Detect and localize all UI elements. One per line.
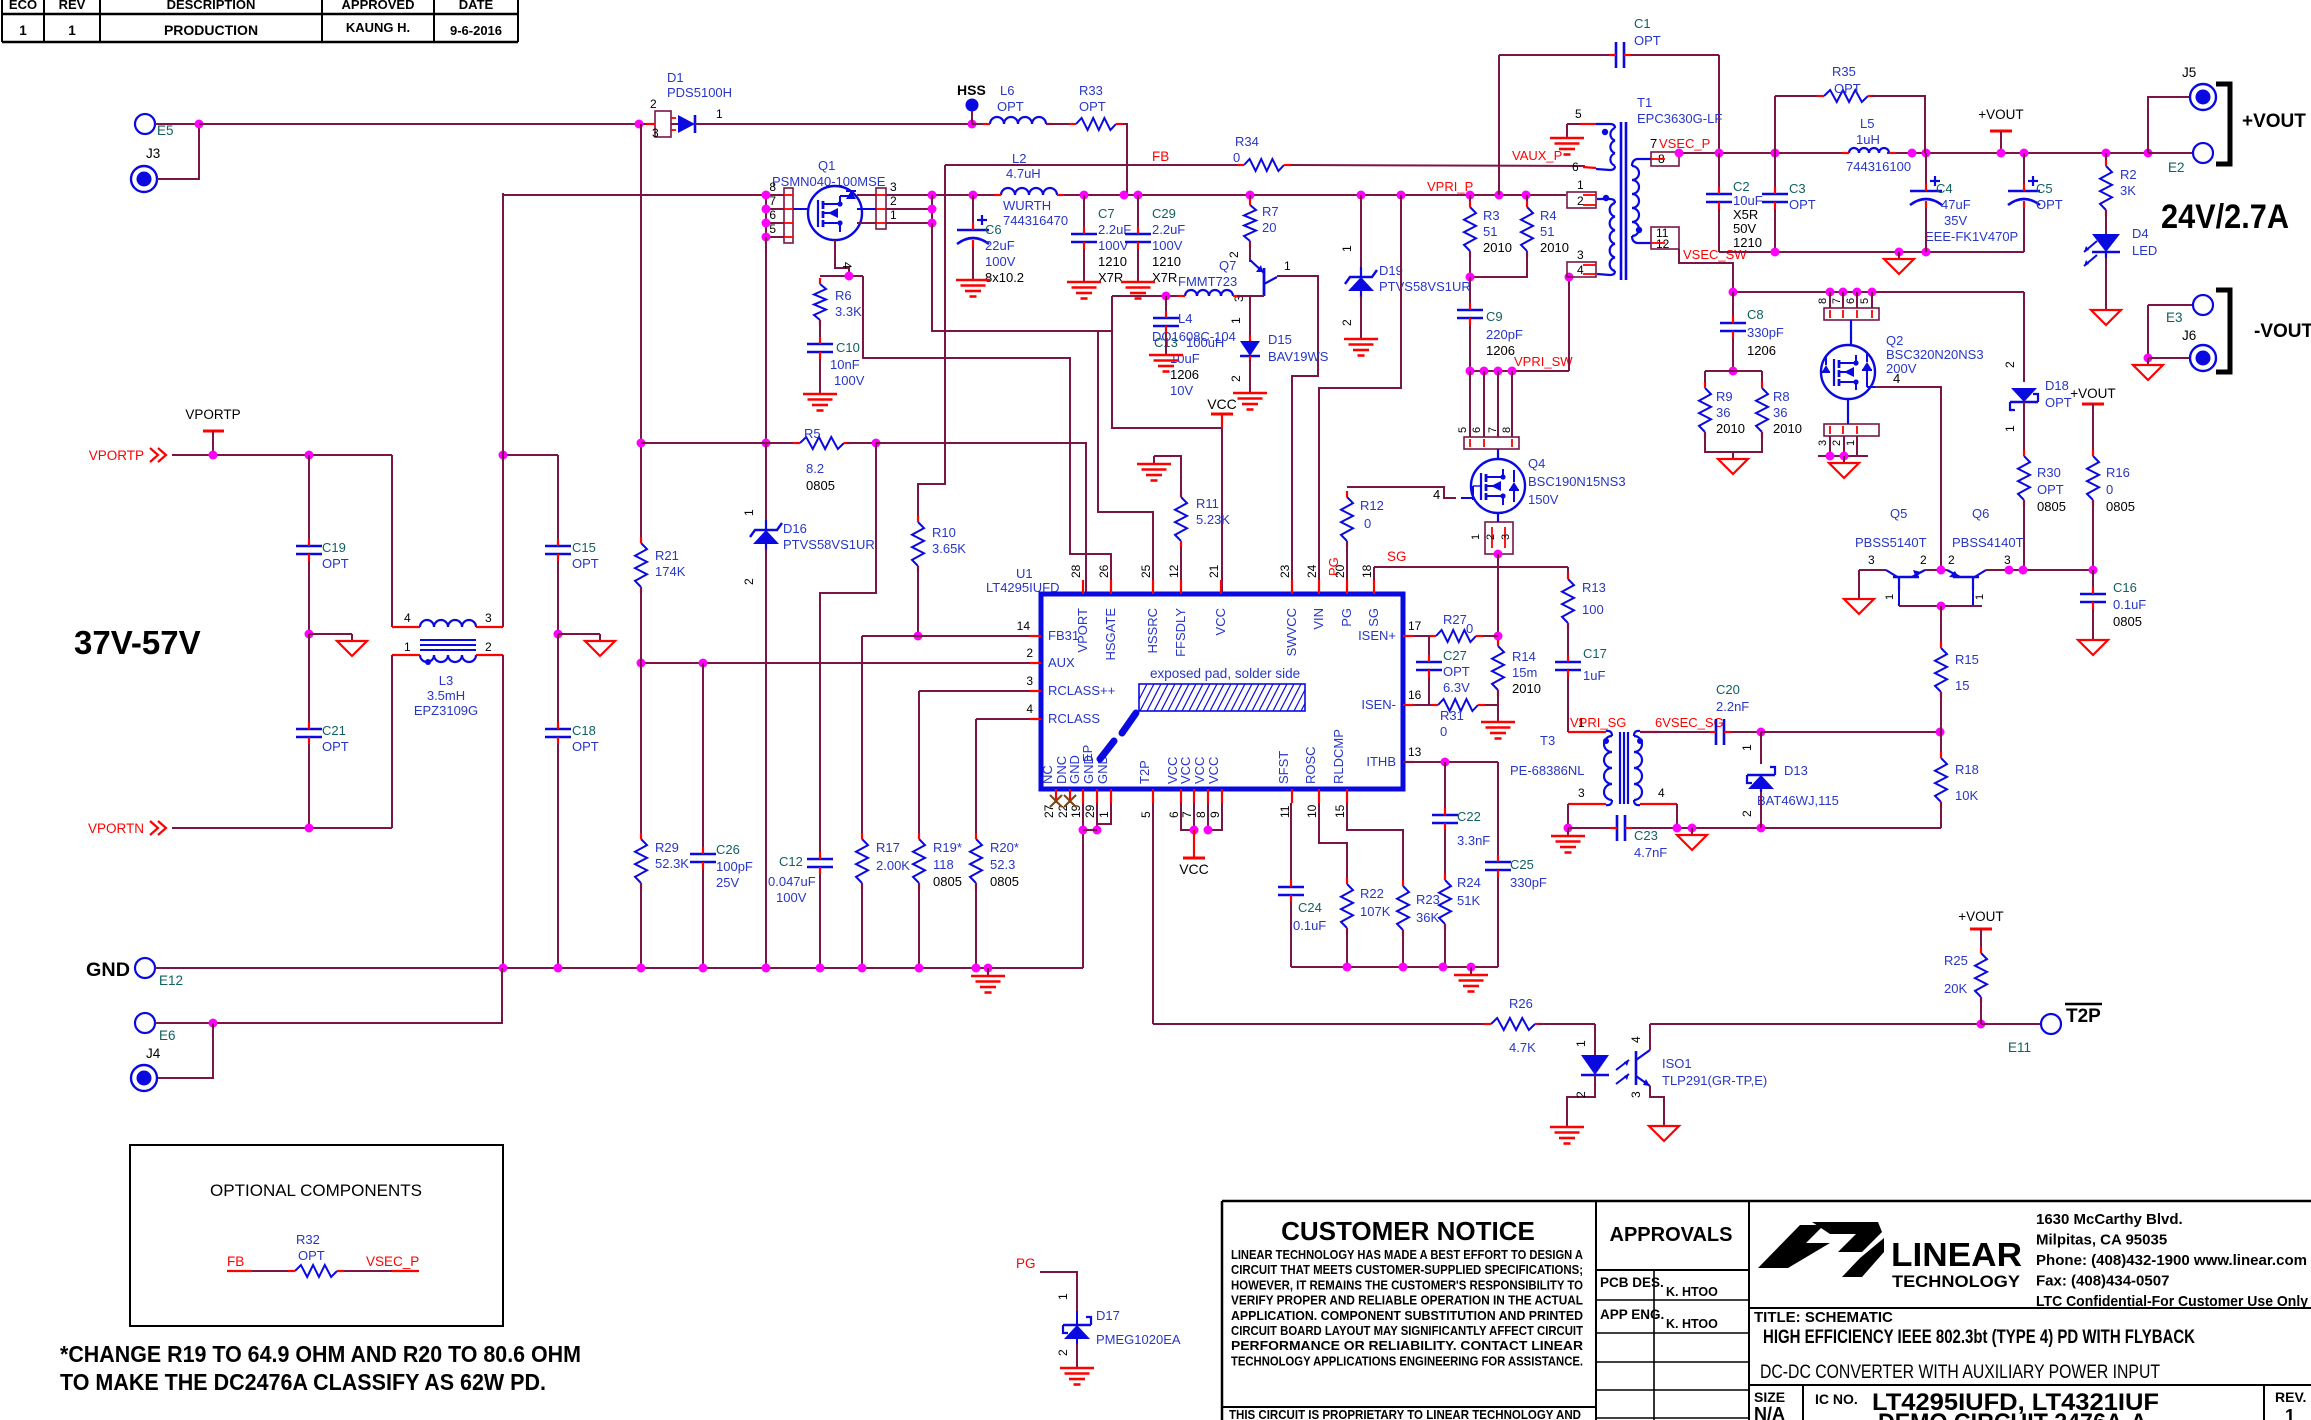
- wire Q4 drain pin3: [1511, 371, 1513, 437]
- power VCC bottom: [1179, 830, 1209, 877]
- wire Q1 drain rail: [886, 194, 1001, 196]
- wire E11 stub: [1981, 1023, 2040, 1025]
- svg-text:VSEC_P: VSEC_P: [1659, 136, 1710, 151]
- wire C17 to VPRI_SG: [1567, 677, 1569, 732]
- wire HSS to L6: [972, 123, 990, 125]
- wire c19 gnd arm: [309, 633, 352, 635]
- label U1 pin28top: [0, 0, 1, 1]
- label D18 ref: [2045, 378, 2069, 393]
- svg-text:VPORTN: VPORTN: [88, 821, 144, 836]
- svg-text:100uH: 100uH: [1186, 335, 1224, 350]
- svg-text:R4: R4: [1540, 208, 1557, 223]
- wire R35 right: [1871, 96, 1925, 153]
- ground D19 ground: [1344, 331, 1378, 356]
- wire R26 to ISO1: [1538, 1023, 1595, 1025]
- junction rail-C6: [969, 191, 978, 200]
- junction u1g2: [1093, 826, 1102, 835]
- wire SG pin riser: [1373, 567, 1375, 594]
- big +VOUT: [2242, 111, 2306, 132]
- junction R15 bottom node: [1936, 728, 1945, 737]
- junction rail-D19: [1357, 191, 1366, 200]
- svg-text:BSC320N20NS3: BSC320N20NS3: [1886, 347, 1984, 362]
- junction u1v2: [1204, 826, 1213, 835]
- svg-text:R26: R26: [1509, 996, 1533, 1011]
- label T1 pin12b: [1656, 237, 1670, 251]
- svg-text:K. HTOO: K. HTOO: [1666, 1317, 1718, 1331]
- approvals title: [1610, 1224, 1733, 1246]
- junction c15 mid: [554, 630, 563, 639]
- label U1 pin3: [1026, 674, 1033, 688]
- label Q1 pin5: [769, 222, 776, 236]
- junction q2s1: [1826, 452, 1835, 461]
- svg-text:1: 1: [1578, 716, 1585, 730]
- junction sw4: [1508, 367, 1517, 376]
- connector E6: [135, 1013, 176, 1043]
- wire C19 drop: [308, 455, 310, 546]
- svg-text:1630 McCarthy Blvd.: 1630 McCarthy Blvd.: [2036, 1211, 2183, 1228]
- svg-text:3.5mH: 3.5mH: [427, 688, 465, 703]
- label D19 pin2: [1340, 319, 1354, 326]
- junction gate node: [845, 272, 854, 281]
- label Q2 pin6: [1845, 298, 1857, 304]
- resistor R18: [1935, 752, 1979, 808]
- wire L3 pin3 riser: [502, 193, 504, 627]
- label D13 pin2: [1740, 810, 1754, 817]
- svg-text:VPORTP: VPORTP: [89, 448, 144, 463]
- svg-text:X7R: X7R: [1098, 270, 1123, 285]
- svg-text:C2: C2: [1733, 179, 1750, 194]
- svg-text:36: 36: [1773, 405, 1787, 420]
- junction og3: [1922, 248, 1931, 257]
- svg-text:16: 16: [1408, 688, 1422, 702]
- svg-text:2010: 2010: [1512, 681, 1541, 696]
- junction vp1: [1675, 149, 1684, 158]
- wire VCC tap: [1112, 331, 1222, 428]
- optional components box: [130, 1145, 503, 1326]
- wire VSEC_P rail: [1679, 152, 1849, 154]
- svg-text:2: 2: [1485, 534, 1497, 540]
- wire ISO1 led bottom: [1567, 1075, 1595, 1119]
- wire D1 cathode to HSS: [695, 123, 972, 125]
- svg-text:IC NO.: IC NO.: [1815, 1391, 1858, 1407]
- svg-text:1: 1: [1574, 1040, 1588, 1047]
- junction C9 node: [1466, 273, 1475, 282]
- svg-text:C15: C15: [572, 540, 596, 555]
- resistor R32: [288, 1265, 344, 1277]
- svg-text:VPRI_SW: VPRI_SW: [1514, 354, 1573, 369]
- wire ISEN- line: [1403, 704, 1438, 706]
- wire C3 bottom: [1774, 209, 1776, 252]
- svg-text:ECO: ECO: [9, 0, 37, 12]
- ground J6 ground: [2133, 358, 2163, 380]
- label D15 pin2: [1229, 375, 1243, 382]
- label J5: [2182, 65, 2196, 80]
- wire D4 to gnd: [2105, 258, 2107, 303]
- power VPORTP tap: [185, 407, 240, 455]
- svg-text:2.00K: 2.00K: [876, 858, 910, 873]
- svg-text:1: 1: [404, 640, 411, 654]
- power +VOUT tap3: [1958, 909, 2003, 929]
- label D1 part: [667, 85, 732, 100]
- junction J6 node: [2144, 354, 2153, 363]
- wire VSEC_P rail2: [1887, 152, 2148, 154]
- svg-text:BAV19WS: BAV19WS: [1268, 349, 1329, 364]
- svg-text:OPTIONAL COMPONENTS: OPTIONAL COMPONENTS: [210, 1181, 422, 1200]
- svg-text:APPLICATION. COMPONENT SUBSTI: APPLICATION. COMPONENT SUBSTITUTION AND …: [1231, 1309, 1583, 1323]
- svg-text:6.3V: 6.3V: [1443, 680, 1470, 695]
- big 37V-57V: [74, 624, 201, 661]
- svg-text:1: 1: [2285, 1406, 2295, 1420]
- label D17 pin2: [1056, 1349, 1070, 1356]
- wire U1 vcc pin7: [1193, 803, 1195, 830]
- svg-text:AUX: AUX: [1048, 655, 1075, 670]
- connector E3: [2166, 295, 2213, 325]
- svg-text:200V: 200V: [1886, 361, 1917, 376]
- svg-text:36: 36: [1716, 405, 1730, 420]
- svg-text:5.23K: 5.23K: [1196, 512, 1230, 527]
- led D4: [2084, 234, 2120, 266]
- ground C16 ground: [2078, 633, 2108, 655]
- ground R14 ground: [1481, 714, 1515, 739]
- svg-text:2: 2: [1056, 1349, 1070, 1356]
- wire GND bus: [155, 967, 1083, 969]
- junction c23-p4: [1673, 824, 1682, 833]
- inductor L2: [994, 151, 1068, 228]
- capacitor C21: [296, 722, 349, 754]
- wire T2P pin drop: [1152, 803, 1154, 1024]
- svg-text:1: 1: [1577, 178, 1584, 192]
- svg-text:SG: SG: [1387, 549, 1407, 564]
- bracket -VOUT: [2216, 290, 2230, 372]
- wire C20 to D13: [1731, 731, 1761, 733]
- svg-text:C21: C21: [322, 723, 346, 738]
- svg-text:X7R: X7R: [1152, 270, 1177, 285]
- svg-text:OPT: OPT: [1834, 81, 1861, 96]
- wire U1 vcc pin8: [1207, 803, 1209, 830]
- svg-text:R30: R30: [2037, 465, 2061, 480]
- svg-text:PBSS5140T: PBSS5140T: [1855, 535, 1927, 550]
- transistor Q1: [793, 186, 862, 240]
- label Q6 ref: [1972, 506, 1989, 521]
- label Q1 pin3: [890, 180, 897, 194]
- svg-text:2: 2: [1831, 440, 1843, 446]
- wire R18 bottom: [1940, 802, 1942, 828]
- resistor R29: [635, 833, 689, 889]
- label Q4 pin5: [1457, 427, 1469, 433]
- junction C8 node: [1729, 288, 1738, 297]
- capacitor C26: [690, 842, 753, 890]
- resistor R34: [1233, 134, 1291, 171]
- svg-text:1: 1: [2003, 425, 2017, 432]
- wire C26 drop: [702, 663, 704, 854]
- junction g-C26: [699, 964, 708, 973]
- resistor R2: [2100, 160, 2137, 216]
- svg-text:4.7uH: 4.7uH: [1006, 166, 1041, 181]
- power +VOUT tap: [1978, 107, 2023, 153]
- net port VPORTP VPORTP: [89, 448, 166, 463]
- svg-text:Phone: (408)432-1900 www.line: Phone: (408)432-1900 www.linear.com: [2036, 1252, 2307, 1269]
- net label VSEC_SW: [1683, 247, 1747, 262]
- svg-text:HSGATE: HSGATE: [1103, 608, 1118, 661]
- resistor R19: [913, 833, 962, 889]
- label U1 pin2: [1026, 646, 1033, 660]
- capacitor C4: [1910, 176, 2018, 244]
- capacitor C18: [545, 722, 599, 754]
- label J6: [2182, 328, 2196, 343]
- svg-text:3: 3: [1026, 674, 1033, 688]
- wire ISEN+ line: [1403, 635, 1436, 637]
- svg-text:1: 1: [1097, 811, 1111, 818]
- svg-text:3.65K: 3.65K: [932, 541, 966, 556]
- Q4 top pin stubs: [1470, 439, 1512, 458]
- svg-text:118: 118: [933, 857, 954, 872]
- wire R23 route: [1347, 803, 1403, 886]
- junction Q4 source node: [1494, 550, 1503, 559]
- wire D15 top: [1249, 296, 1251, 341]
- svg-text:BAT46WJ,115: BAT46WJ,115: [1757, 793, 1839, 808]
- net port VPORTN VPORTN: [88, 821, 166, 836]
- label D13 pin1: [1740, 744, 1754, 751]
- wire R10 to FB31: [917, 566, 919, 636]
- label Q2 pin5: [1859, 298, 1871, 304]
- svg-text:FB31: FB31: [1048, 628, 1079, 643]
- resistor R11: [1175, 491, 1230, 547]
- junction vp8: [2144, 149, 2153, 158]
- label ISO1 ref: [1662, 1056, 1692, 1071]
- wire AUX to R29: [640, 663, 642, 839]
- svg-text:13: 13: [1408, 745, 1422, 759]
- label T1 part: [1637, 111, 1722, 126]
- svg-text:8: 8: [1194, 811, 1208, 818]
- wire D18 to R30: [2023, 402, 2025, 456]
- wire ISO1 c pin4: [1649, 1024, 1651, 1050]
- svg-text:1: 1: [1229, 317, 1243, 324]
- svg-text:10uF: 10uF: [1733, 193, 1763, 208]
- svg-text:APPROVALS: APPROVALS: [1610, 1224, 1733, 1246]
- svg-text:R32: R32: [296, 1232, 320, 1247]
- resistor R7: [1244, 199, 1279, 247]
- svg-text:OPT: OPT: [322, 739, 349, 754]
- svg-text:36K: 36K: [1416, 910, 1439, 925]
- svg-text:1210: 1210: [1098, 254, 1127, 269]
- big 24V/2.7A: [2161, 198, 2289, 236]
- svg-text:ISEN-: ISEN-: [1361, 697, 1396, 712]
- svg-text:D4: D4: [2132, 226, 2149, 241]
- junction q2d2: [1839, 288, 1848, 297]
- junction sw3: [1494, 367, 1503, 376]
- label D17 part: [1096, 1332, 1181, 1347]
- wire C1 left: [1499, 54, 1616, 56]
- svg-text:0: 0: [1466, 621, 1473, 636]
- svg-text:OPT: OPT: [1443, 664, 1470, 679]
- svg-text:R9: R9: [1716, 389, 1733, 404]
- icno label: [1815, 1391, 1858, 1407]
- svg-text:L2: L2: [1012, 151, 1026, 166]
- wire PG wire: [1040, 1272, 1077, 1311]
- wire T2P out line: [1650, 1023, 1981, 1025]
- wire Q4 drain pin2: [1497, 371, 1499, 437]
- svg-text:24: 24: [1305, 564, 1319, 578]
- net label PG: [1326, 557, 1341, 576]
- wire VPORT route: [876, 443, 1086, 594]
- svg-text:1: 1: [716, 107, 723, 121]
- svg-text:2: 2: [1227, 251, 1241, 258]
- ground Q2 source ground: [1829, 456, 1859, 478]
- transformer T1: [1596, 122, 1651, 280]
- net label VPRI_SW: [1514, 354, 1573, 369]
- label D1 pin2: [650, 97, 657, 111]
- junction c23-tri: [1688, 824, 1697, 833]
- svg-text:R14: R14: [1512, 649, 1536, 664]
- svg-text:51: 51: [1483, 224, 1497, 239]
- junction vportp-tap: [209, 451, 218, 460]
- label ISO1 part: [1662, 1073, 1767, 1088]
- wire J5 riser: [2148, 97, 2190, 153]
- capacitor C2: [1706, 179, 1763, 250]
- Q2 bottom pin merge: [1830, 399, 1857, 434]
- junction b3: [2019, 566, 2028, 575]
- wire R4 bottom: [1470, 251, 1527, 277]
- svg-text:100pF: 100pF: [716, 859, 753, 874]
- svg-text:R12: R12: [1360, 498, 1384, 513]
- svg-text:2: 2: [1574, 1091, 1588, 1098]
- label D4 part: [2132, 243, 2157, 258]
- wire C22 drop: [1444, 762, 1446, 815]
- junction q1p5: [762, 233, 771, 242]
- junction R27 node: [1494, 632, 1503, 641]
- label Q5 pin2: [1920, 553, 1927, 567]
- label Q5 pin1: [1884, 594, 1896, 600]
- wire C2 bottom: [1718, 209, 1720, 252]
- svg-text:REV.: REV.: [2275, 1389, 2306, 1405]
- label Q2 pin2: [1831, 440, 1843, 446]
- svg-text:*CHANGE R19 TO 64.9 OHM AND R2: *CHANGE R19 TO 64.9 OHM AND R20 TO 80.6 …: [60, 1341, 581, 1367]
- svg-text:VERIFY PROPER AND RELIABLE OPE: VERIFY PROPER AND RELIABLE OPERATION IN …: [1231, 1294, 1583, 1308]
- svg-text:DATE: DATE: [459, 0, 494, 12]
- svg-text:FB: FB: [1152, 149, 1169, 164]
- wire Q4 drain pin1: [1483, 371, 1485, 437]
- wire GND bus to U1: [1082, 833, 1084, 968]
- junction rail-VIN: [1397, 191, 1406, 200]
- ground comp ground: [1454, 967, 1488, 992]
- wire HSGATE route: [863, 276, 1111, 594]
- Q4 bottom pin stubs: [1492, 513, 1505, 548]
- svg-text:6: 6: [769, 208, 776, 222]
- wire Q2 source pin: [1856, 436, 1858, 456]
- svg-text:D1: D1: [667, 70, 684, 85]
- wire sec gnd bus left: [1568, 827, 1617, 829]
- svg-text:0.047uF: 0.047uF: [768, 874, 816, 889]
- wire U1 gnd pin19: [1082, 803, 1084, 830]
- customer notice title: [1281, 1216, 1535, 1246]
- svg-text:6VSEC_SG: 6VSEC_SG: [1655, 715, 1724, 730]
- resistor R20: [970, 833, 1019, 889]
- label Q4 part: [1528, 474, 1626, 489]
- pcb des: [1600, 1275, 1664, 1290]
- capacitor C27: [1416, 648, 1470, 695]
- demo value: [1878, 1409, 2147, 1420]
- wire C24 bottom: [1290, 902, 1292, 967]
- wire R12 to PG pin: [1346, 541, 1348, 594]
- wire rail to C6: [972, 195, 974, 230]
- svg-text:21: 21: [1207, 564, 1221, 578]
- svg-text:20K: 20K: [1944, 981, 1967, 996]
- svg-text:PRODUCTION: PRODUCTION: [164, 22, 258, 38]
- wire R7 to Q7: [1249, 241, 1251, 262]
- wire C8 drop: [1732, 292, 1734, 323]
- wire R9 top: [1704, 371, 1706, 388]
- wire Q5Q6 base wire: [1925, 569, 1947, 571]
- wire E6 wire: [155, 968, 502, 1023]
- svg-text:PBSS4140T: PBSS4140T: [1952, 535, 2024, 550]
- net label VPRI_SG: [1570, 715, 1626, 730]
- testpoint HSS: [957, 82, 986, 124]
- wire R5 right wire: [847, 442, 876, 444]
- resistor R35: [1817, 64, 1875, 102]
- resistor R10: [912, 516, 966, 572]
- svg-text:100V: 100V: [776, 890, 807, 905]
- svg-text:OPT: OPT: [1789, 197, 1816, 212]
- svg-text:4: 4: [1893, 371, 1900, 386]
- svg-text:22: 22: [1056, 804, 1070, 818]
- svg-text:SIZE: SIZE: [1754, 1389, 1785, 1405]
- size value: [1754, 1404, 1785, 1420]
- wire L4 line: [1112, 295, 1185, 297]
- wire VIN route: [1319, 195, 1401, 594]
- wire C6 to gnd: [972, 247, 974, 272]
- U1 right pins: [1358, 628, 1414, 769]
- wire FB line: [945, 164, 1244, 166]
- label T3 ref: [1540, 733, 1555, 748]
- address block: [2036, 1211, 2309, 1310]
- svg-text:VCC: VCC: [1178, 757, 1193, 784]
- wire C15 drop: [557, 455, 559, 546]
- label Q2 pin1: [1845, 440, 1857, 446]
- svg-text:2.2nF: 2.2nF: [1716, 699, 1749, 714]
- wire Q2 drain pin q2d1: [1829, 292, 1831, 308]
- wire R8 top: [1761, 371, 1763, 388]
- svg-text:SG: SG: [1366, 608, 1381, 627]
- label Q4 ref: [1528, 456, 1545, 471]
- wire L3 pin4 riser: [391, 455, 393, 627]
- T1 pin8 stubs: [1651, 158, 1665, 160]
- ground C29 ground: [1121, 274, 1155, 299]
- wire RCLASS line: [976, 718, 1041, 720]
- ground D17 ground: [1060, 1360, 1094, 1385]
- svg-text:C7: C7: [1098, 206, 1115, 221]
- label D13 part: [1757, 793, 1839, 808]
- wire R17 drop: [861, 636, 863, 839]
- wire D16 to gnd: [765, 549, 767, 968]
- net label FB opt: [227, 1254, 244, 1269]
- svg-text:APPROVED: APPROVED: [342, 0, 415, 12]
- wire Q1 row2: [886, 208, 932, 210]
- svg-text:C25: C25: [1510, 857, 1534, 872]
- app eng name: [1666, 1317, 1718, 1331]
- label D4 ref: [2132, 226, 2149, 241]
- svg-text:-VOUT: -VOUT: [2254, 321, 2311, 342]
- svg-text:TITLE: SCHEMATIC: TITLE: SCHEMATIC: [1754, 1309, 1893, 1326]
- wire Q1 gate node: [820, 275, 863, 277]
- svg-text:4.7K: 4.7K: [1509, 1040, 1536, 1055]
- wire C3 drop: [1774, 153, 1776, 194]
- svg-text:7: 7: [1180, 811, 1194, 818]
- label Q6 part: [1952, 535, 2024, 550]
- transistor Q4: [1461, 459, 1525, 513]
- svg-text:DEMO CIRCUIT 2476A-A: DEMO CIRCUIT 2476A-A: [1878, 1409, 2147, 1420]
- wire D19 to gnd: [1360, 296, 1362, 331]
- wire ITHB line: [1403, 761, 1498, 763]
